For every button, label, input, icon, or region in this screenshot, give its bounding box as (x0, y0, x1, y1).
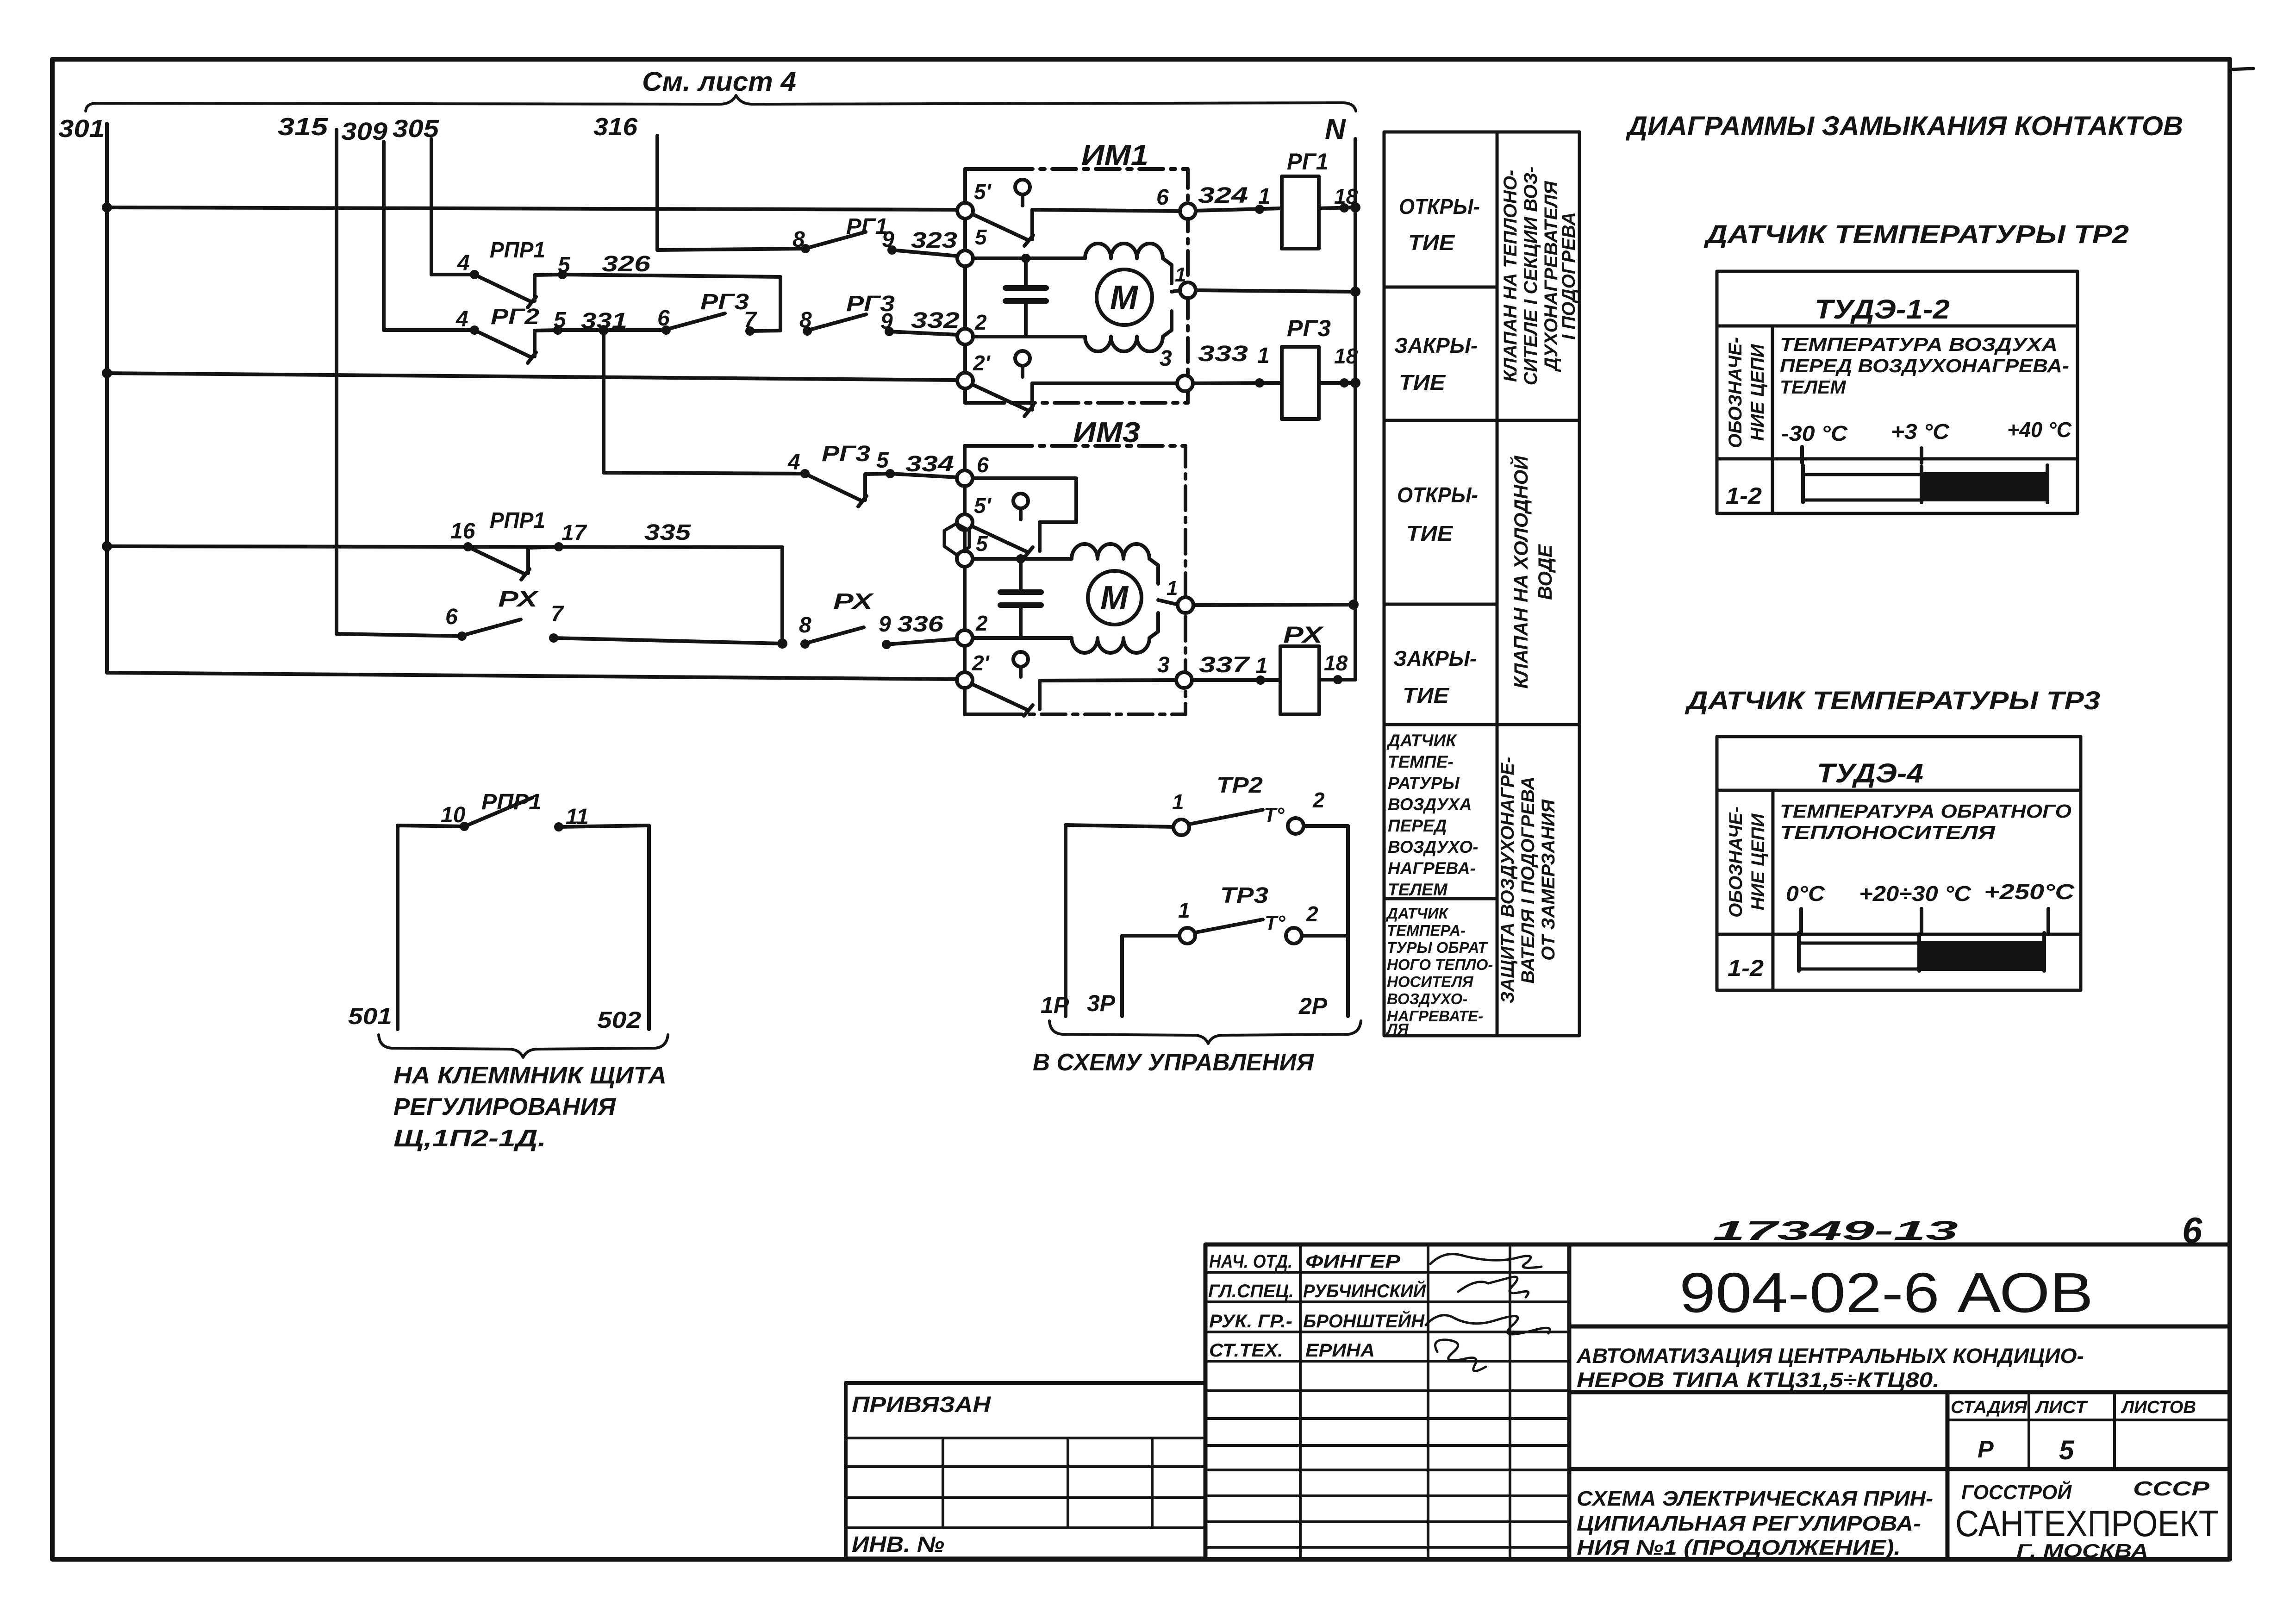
svg-text:НИЕ ЦЕПИ: НИЕ ЦЕПИ (1747, 344, 1768, 441)
svg-text:+3 °С: +3 °С (1891, 419, 1950, 444)
svg-text:333: 333 (1198, 342, 1248, 366)
svg-text:ТЕПЛОНОСИТЕЛЯ: ТЕПЛОНОСИТЕЛЯ (1780, 822, 1996, 843)
svg-text:ЗАЩИТА ВОЗДУХОНАГРЕ-: ЗАЩИТА ВОЗДУХОНАГРЕ- (1497, 757, 1518, 1004)
signature Rubchinsky (1458, 1277, 1529, 1297)
svg-text:2Р: 2Р (1298, 993, 1328, 1019)
svg-text:ВОЗДУХО-: ВОЗДУХО- (1387, 990, 1467, 1007)
mechanical link hexagon (944, 524, 969, 555)
privyazan table (846, 1383, 1205, 1558)
svg-text:ДАТЧИК: ДАТЧИК (1385, 905, 1449, 922)
wire 326 to РГ3 riser (562, 275, 780, 330)
svg-text:ГЛ.СПЕЦ.: ГЛ.СПЕЦ. (1208, 1281, 1294, 1301)
diagram bar TP2 (1803, 465, 2047, 502)
motor M circle IM1 (1097, 269, 1152, 325)
wire 5 row inside IM3 (973, 557, 1072, 561)
label 17349-13 (1713, 1216, 1958, 1246)
heading diagrams (1625, 111, 2183, 141)
label СТАДИЯ ЛИСТ ЛИСТОВ (1951, 1398, 2196, 1417)
svg-text:334: 334 (905, 452, 954, 476)
svg-text:2': 2' (972, 651, 990, 675)
terminal 6 IM3 (957, 470, 973, 486)
svg-text:18: 18 (1334, 184, 1358, 208)
label 1Р 3Р 2Р (1041, 990, 1328, 1019)
label РУК.ГР. БРОНШТЕЙН (1209, 1310, 1425, 1332)
heading sensor TP2 (1703, 219, 2129, 249)
svg-text:РГ3: РГ3 (700, 290, 749, 314)
svg-text:ТЕМПЕРАТУРА ВОЗДУХА: ТЕМПЕРАТУРА ВОЗДУХА (1780, 334, 2058, 355)
label 6 324 1 (1156, 183, 1271, 210)
thermostat TP3 contact (1122, 919, 1348, 1016)
title block signature table (1205, 1244, 1569, 1559)
svg-text:301: 301 (58, 115, 105, 143)
svg-text:16: 16 (450, 519, 475, 544)
svg-text:2: 2 (975, 611, 988, 635)
label circuit designation rotated 1 (1725, 337, 1768, 448)
wire 5 row inside IM1 (973, 256, 1085, 260)
svg-text:НА КЛЕММНИК ЩИТА: НА КЛЕММНИК ЩИТА (393, 1062, 667, 1089)
wire 316 vertical (655, 136, 659, 250)
svg-text:7: 7 (744, 308, 757, 332)
label closing 2 (1393, 646, 1477, 707)
wire 2 row inside IM1 (973, 335, 1085, 338)
svg-text:Т°: Т° (1265, 912, 1285, 934)
svg-text:РАТУРЫ: РАТУРЫ (1388, 774, 1460, 793)
actuator IM3 box (965, 446, 1185, 714)
svg-text:+20÷30 °С: +20÷30 °С (1859, 882, 1972, 906)
label 4 РГ2 5 331 (455, 305, 627, 333)
svg-text:ЗАКРЫ-: ЗАКРЫ- (1393, 646, 1477, 670)
svg-text:3: 3 (1160, 346, 1172, 371)
wire 326 row from 305 (431, 273, 474, 276)
label closing 1 (1394, 333, 1478, 394)
junction cap top IM3 (1016, 554, 1025, 563)
svg-text:332: 332 (911, 308, 960, 333)
wire 301 vertical (105, 124, 109, 673)
label to control circuit (1033, 1049, 1314, 1076)
label project title (1576, 1344, 2084, 1392)
limit switch 5p IM3 (968, 494, 1040, 558)
capacitor IM1 (1005, 258, 1046, 337)
wire 323 row from 316 (657, 249, 805, 250)
label page 6 (2182, 1210, 2202, 1250)
svg-text:1: 1 (1172, 790, 1184, 814)
svg-text:ЛИСТ: ЛИСТ (2034, 1398, 2088, 1417)
svg-text:ДАТЧИК ТЕМПЕРАТУРЫ ТР2: ДАТЧИК ТЕМПЕРАТУРЫ ТР2 (1703, 219, 2129, 249)
contact РПР1 16-17 (463, 542, 563, 580)
label see sheet 4 (642, 67, 796, 97)
svg-text:5: 5 (554, 308, 567, 332)
svg-text:7: 7 (551, 602, 564, 626)
svg-text:ОТКРЫ-: ОТКРЫ- (1397, 483, 1478, 507)
wire rail1 301 to IM1 (107, 207, 957, 210)
svg-text:БРОНШТЕЙН: БРОНШТЕЙН (1303, 1310, 1425, 1332)
scale ticks TP3 (1801, 909, 2048, 934)
svg-text:НОСИТЕЛЯ: НОСИТЕЛЯ (1387, 973, 1473, 990)
svg-text:ПРИВЯЗАН: ПРИВЯЗАН (852, 1393, 991, 1417)
svg-text:НАЧ. ОТД.: НАЧ. ОТД. (1209, 1251, 1292, 1272)
scale labels TP3 (1786, 880, 2075, 906)
wire drop to 334 row (604, 330, 805, 474)
svg-text:5: 5 (975, 225, 987, 249)
label 5 (975, 225, 987, 249)
svg-text:1: 1 (1167, 577, 1178, 600)
label РГ1 18 (1287, 149, 1358, 208)
svg-text:9: 9 (879, 612, 891, 637)
label 6 РГ3 7 (657, 290, 757, 332)
wire 305 vertical (430, 139, 433, 275)
svg-text:СТАДИЯ: СТАДИЯ (1951, 1398, 2028, 1417)
label САНТЕХПРОЕКТ (1955, 1503, 2219, 1544)
label СТ.ТЕХ. ЕРИНА (1209, 1340, 1375, 1361)
label РГ3 18 (1287, 315, 1358, 368)
svg-text:1-2: 1-2 (1728, 955, 1764, 981)
svg-text:ОТКРЫ-: ОТКРЫ- (1399, 194, 1480, 219)
svg-text:ПЕРЕД ВОЗДУХОНАГРЕВА-: ПЕРЕД ВОЗДУХОНАГРЕВА- (1780, 355, 2069, 376)
node 309 label (341, 118, 387, 145)
svg-text:3: 3 (1157, 653, 1170, 677)
svg-text:ТИЕ: ТИЕ (1399, 370, 1446, 394)
label 3 337 1 (1157, 653, 1268, 678)
table TUDE-4 (1717, 737, 2081, 990)
svg-text:ОТ ЗАМЕРЗАНИЯ: ОТ ЗАМЕРЗАНИЯ (1538, 799, 1559, 961)
relay coil РГ3 (1193, 347, 1360, 419)
signature Erina (1435, 1340, 1486, 1371)
node N label (1325, 113, 1346, 145)
svg-text:324: 324 (1198, 183, 1248, 208)
terminal 6 IM1 (1180, 203, 1196, 219)
svg-text:1: 1 (1255, 654, 1268, 678)
node 305 label (393, 115, 439, 143)
svg-text:ПЕРЕД: ПЕРЕД (1388, 816, 1447, 835)
signature Finger (1430, 1254, 1541, 1268)
svg-text:ВОЗДУХО-: ВОЗДУХО- (1388, 838, 1478, 857)
label ИНВ № (852, 1532, 944, 1557)
label opening 1 (1399, 194, 1480, 255)
svg-text:ИМ3: ИМ3 (1073, 417, 1140, 449)
svg-text:РГ3: РГ3 (1287, 315, 1331, 341)
svg-text:РГ1: РГ1 (1287, 149, 1329, 175)
junction rail2-301 (102, 368, 112, 378)
svg-text:1Р: 1Р (1041, 992, 1069, 1018)
label 904-02-6 АОВ (1679, 1261, 2093, 1324)
svg-text:309: 309 (341, 118, 387, 145)
svg-text:САНТЕХПРОЕКТ: САНТЕХПРОЕКТ (1955, 1503, 2219, 1544)
wire motor IM1 to N (1196, 290, 1355, 292)
title block main (1569, 1244, 2230, 1559)
contact РГ3 4-5 row 334 (800, 469, 957, 506)
scale labels TP2 (1781, 418, 2072, 445)
limit switch 2p IM3 (968, 652, 1176, 716)
svg-text:2: 2 (974, 310, 987, 334)
label 3 333 1 (1160, 342, 1270, 371)
svg-text:0°С: 0°С (1786, 882, 1825, 906)
label 6 РХ 7 (445, 587, 564, 629)
terminal 3 IM1 (1177, 375, 1193, 391)
svg-text:АВТОМАТИЗАЦИЯ ЦЕНТРАЛЬНЫХ КО: АВТОМАТИЗАЦИЯ ЦЕНТРАЛЬНЫХ КОНДИЦИО- (1576, 1344, 2084, 1368)
label 16 РПР1 17 335 (450, 508, 692, 545)
svg-text:М: М (1100, 580, 1129, 617)
wire 2 row inside IM3 (973, 636, 1072, 640)
svg-text:9: 9 (880, 309, 893, 334)
svg-text:5: 5 (2059, 1435, 2074, 1465)
terminal 5p IM1 (957, 203, 973, 219)
brace see sheet 4 (86, 95, 1356, 111)
svg-text:РХ: РХ (498, 587, 539, 612)
svg-text:1-2: 1-2 (1726, 483, 1762, 509)
svg-text:336: 336 (897, 612, 943, 637)
svg-text:315: 315 (278, 113, 328, 141)
svg-text:6: 6 (657, 306, 670, 331)
terminal 2 IM3 (957, 630, 973, 646)
svg-text:ИНВ. №: ИНВ. № (852, 1532, 944, 1557)
label 4 РГ3 5 334 (787, 442, 954, 476)
svg-text:ТУДЭ-4: ТУДЭ-4 (1817, 758, 1923, 788)
svg-text:I ПОДОГРЕВА: I ПОДОГРЕВА (1559, 212, 1579, 340)
svg-text:8: 8 (799, 613, 811, 638)
motor M circle IM3 (1088, 571, 1142, 625)
svg-text:НОГО ТЕПЛО-: НОГО ТЕПЛО- (1387, 956, 1493, 973)
label 1-2 TP2 (1726, 483, 1762, 509)
label 6 IM3 (977, 453, 989, 477)
svg-text:Щ,1П2-1Д.: Щ,1П2-1Д. (393, 1125, 546, 1152)
node 315 label (278, 113, 328, 141)
junction motor IM3 N (1348, 600, 1359, 610)
svg-text:М: М (1110, 279, 1139, 316)
svg-text:5: 5 (976, 531, 988, 556)
svg-text:5': 5' (974, 180, 992, 204)
svg-text:2: 2 (1312, 788, 1325, 812)
label ГЛ.СПЕЦ. РУБЧИНСКИЙ (1208, 1280, 1426, 1301)
svg-text:17349-13: 17349-13 (1713, 1216, 1958, 1246)
svg-text:ЦИПИАЛЬНАЯ РЕГУЛИРОВА-: ЦИПИАЛЬНАЯ РЕГУЛИРОВА- (1577, 1512, 1921, 1535)
function table (1384, 132, 1579, 1036)
contact РПР1 10-11 assembly (398, 798, 649, 1029)
svg-text:ТУДЭ-1-2: ТУДЭ-1-2 (1815, 294, 1950, 325)
junction rail1-301 (102, 202, 112, 213)
svg-text:6: 6 (445, 605, 458, 629)
svg-text:ДИАГРАММЫ ЗАМЫКАНИЯ КОНТАКТО: ДИАГРАММЫ ЗАМЫКАНИЯ КОНТАКТОВ (1625, 111, 2183, 141)
svg-text:ЕРИНА: ЕРИНА (1305, 1340, 1375, 1361)
svg-text:ТУРЫ ОБРАТ: ТУРЫ ОБРАТ (1387, 939, 1488, 956)
svg-text:НАГРЕВА-: НАГРЕВА- (1388, 859, 1476, 878)
relay coil РХ (1192, 646, 1342, 714)
svg-text:ВОЗДУХА: ВОЗДУХА (1388, 795, 1472, 814)
wire РГ2 row from 309 (384, 328, 474, 332)
svg-text:11: 11 (566, 805, 589, 829)
motor terminal IM3 (1158, 577, 1193, 613)
label 5p (974, 180, 992, 204)
svg-text:НИЯ №1 (ПРОДОЛЖЕНИЕ).: НИЯ №1 (ПРОДОЛЖЕНИЕ). (1577, 1536, 1901, 1559)
label TUDE-1-2 (1815, 294, 1950, 325)
wire rail3 335 row (107, 546, 782, 644)
contact РХ 6-7 (337, 619, 781, 644)
label 2p IM3 (972, 651, 990, 675)
junction 334 drop (599, 325, 609, 335)
terminal 2p IM3 (957, 672, 973, 688)
svg-text:2': 2' (973, 351, 991, 375)
svg-text:ТР2: ТР2 (1217, 773, 1263, 798)
wire motor IM3 to N (1193, 605, 1354, 605)
wire 6 hook IM3 (973, 478, 1076, 522)
svg-text:КЛАПАН НА ТЕПЛОНО-: КЛАПАН НА ТЕПЛОНО- (1500, 170, 1521, 382)
node 316 label (593, 113, 638, 141)
svg-text:ТЕМПЕРАТУРА ОБРАТНОГО: ТЕМПЕРАТУРА ОБРАТНОГО (1780, 800, 2071, 822)
label opening 2 (1397, 483, 1478, 545)
label НАЧ.ОТД. ФИНГЕР (1209, 1251, 1400, 1272)
svg-text:4: 4 (457, 251, 470, 275)
wire rail4 bottom (107, 673, 957, 679)
svg-text:904-02-6 АОВ: 904-02-6 АОВ (1679, 1261, 2093, 1324)
svg-text:СССР: СССР (2133, 1477, 2210, 1500)
svg-text:323: 323 (911, 228, 957, 253)
label 1 ТР3 T 2 (1178, 883, 1318, 934)
label ПРИВЯЗАН (852, 1393, 991, 1417)
junction rail3-301 (102, 541, 112, 551)
label 1-2 TP3 (1728, 955, 1764, 981)
label return temperature text (1780, 800, 2071, 843)
svg-text:1: 1 (1178, 898, 1190, 922)
motor terminal IM1 (1172, 263, 1196, 298)
svg-text:ДАТЧИК ТЕМПЕРАТУРЫ ТР3: ДАТЧИК ТЕМПЕРАТУРЫ ТР3 (1685, 686, 2100, 715)
junction cap top IM1 (1021, 254, 1030, 263)
svg-text:9: 9 (882, 227, 894, 252)
label valve cold water rotated (1509, 456, 1556, 689)
node 301 label (58, 115, 105, 143)
svg-text:РПР1: РПР1 (481, 790, 542, 814)
label TUDE-4 (1817, 758, 1923, 788)
svg-text:18: 18 (1324, 651, 1348, 675)
svg-text:4: 4 (455, 307, 468, 331)
limit switch 5p IM1 (969, 180, 1180, 246)
scale ticks TP2 (1802, 447, 1922, 463)
thermostat TP2 contact (1066, 810, 1348, 1016)
label sensor TP2 cell (1386, 731, 1478, 899)
junction motor N (1350, 287, 1360, 297)
contact РГ3 8-9 (803, 314, 957, 336)
contact РГ3 6-7 (661, 313, 780, 336)
svg-text:Р: Р (1978, 1436, 1994, 1463)
svg-text:337: 337 (1199, 653, 1250, 677)
brace control circuit (1049, 1021, 1361, 1044)
svg-text:18: 18 (1334, 344, 1358, 368)
svg-text:5': 5' (974, 494, 992, 518)
svg-text:ВАТЕЛЯ I ПОДОГРЕВА: ВАТЕЛЯ I ПОДОГРЕВА (1518, 776, 1538, 983)
svg-text:СХЕМА ЭЛЕКТРИЧЕСКАЯ ПРИН-: СХЕМА ЭЛЕКТРИЧЕСКАЯ ПРИН- (1577, 1487, 1933, 1510)
svg-text:335: 335 (644, 520, 692, 545)
svg-text:РЕГУЛИРОВАНИЯ: РЕГУЛИРОВАНИЯ (393, 1094, 616, 1120)
svg-text:ФИНГЕР: ФИНГЕР (1305, 1251, 1400, 1272)
actuator IM1 box (965, 169, 1188, 403)
svg-text:Т°: Т° (1264, 804, 1285, 826)
label sensor TP3 cell (1385, 905, 1493, 1038)
brace terminal block (379, 1035, 668, 1057)
svg-text:ТИЕ: ТИЕ (1403, 683, 1449, 707)
terminal 3 IM3 (1176, 672, 1192, 688)
svg-text:ТР3: ТР3 (1220, 883, 1268, 908)
relay coil РГ1 (1196, 176, 1360, 249)
label circuit designation rotated 2 (1726, 806, 1768, 918)
svg-text:ДАТЧИК: ДАТЧИК (1386, 731, 1457, 750)
label 5p IM3 (974, 494, 992, 518)
contact РГ1 8-9 (801, 232, 957, 256)
svg-text:РПР1: РПР1 (490, 508, 545, 533)
svg-text:НИЕ ЦЕПИ: НИЕ ЦЕПИ (1748, 813, 1768, 910)
table TUDE-1-2 (1717, 271, 2078, 513)
svg-text:ЛИСТОВ: ЛИСТОВ (2121, 1398, 2196, 1417)
label ИМ1 (1081, 139, 1148, 171)
wire 309 vertical (382, 142, 386, 330)
terminal 5p IM3 (957, 514, 973, 530)
svg-text:N: N (1325, 113, 1346, 145)
svg-text:1: 1 (1175, 263, 1186, 286)
label Р 5 (1978, 1435, 2074, 1465)
svg-text:РГ3: РГ3 (822, 442, 870, 466)
svg-text:3Р: 3Р (1087, 990, 1116, 1016)
label 501 502 (348, 1003, 641, 1033)
svg-text:17: 17 (562, 521, 587, 545)
svg-text:8: 8 (792, 227, 805, 252)
svg-text:+40 °С: +40 °С (2007, 418, 2072, 442)
wire N vertical (1319, 139, 1355, 680)
label ИМ3 (1073, 417, 1140, 449)
svg-text:1: 1 (1257, 344, 1270, 368)
svg-text:РХ: РХ (833, 589, 874, 614)
svg-text:См. лист 4: См. лист 4 (642, 67, 796, 97)
svg-text:502: 502 (597, 1007, 641, 1033)
label 8 РХ 9 336 (799, 589, 943, 638)
motor winding lower IM3 (1072, 613, 1158, 653)
junction 335-РХ (777, 638, 787, 649)
svg-text:5: 5 (876, 448, 889, 473)
svg-text:В СХЕМУ УПРАВЛЕНИЯ: В СХЕМУ УПРАВЛЕНИЯ (1033, 1049, 1314, 1076)
limit switch 2p IM1 (969, 351, 1177, 416)
svg-text:4: 4 (787, 450, 800, 475)
terminal 2 IM1 (957, 329, 973, 344)
label valve heater rotated (1500, 167, 1579, 386)
label air temperature text (1780, 334, 2069, 398)
svg-text:СИТЕЛЕ I СЕКЦИИ ВОЗ-: СИТЕЛЕ I СЕКЦИИ ВОЗ- (1521, 167, 1541, 386)
svg-text:6: 6 (1156, 185, 1169, 210)
motor winding lower IM1 (1085, 311, 1172, 351)
label Gosstroy СССР (1961, 1477, 2210, 1504)
svg-text:326: 326 (602, 252, 650, 276)
label 2 IM3 (975, 611, 988, 635)
label 10 РПР1 11 (441, 790, 589, 829)
label 2 (974, 310, 987, 334)
svg-text:РУБЧИНСКИЙ: РУБЧИНСКИЙ (1303, 1280, 1426, 1301)
svg-text:ТИЕ: ТИЕ (1406, 521, 1453, 545)
terminal 2p IM1 (957, 373, 973, 388)
svg-text:РХ: РХ (1283, 622, 1324, 648)
label 5 IM3 (976, 531, 988, 556)
label РХ 18 (1283, 622, 1348, 675)
label 8 РГ1 9 323 (792, 214, 957, 253)
svg-text:6: 6 (977, 453, 989, 477)
motor winding upper IM1 (1085, 244, 1172, 283)
svg-text:СТ.ТЕХ.: СТ.ТЕХ. (1209, 1340, 1283, 1361)
svg-text:501: 501 (348, 1003, 392, 1029)
contact РПР1 4-5 (470, 270, 567, 307)
contact РГ2 4-5 (470, 325, 666, 363)
svg-text:ОБОЗНАЧЕ-: ОБОЗНАЧЕ- (1725, 337, 1746, 448)
wire rail2 301 to IM1 (107, 373, 957, 380)
svg-text:+250°С: +250°С (1984, 880, 2075, 904)
label 1 ТР2 T 2 (1172, 773, 1325, 826)
svg-text:2: 2 (1306, 902, 1318, 926)
svg-text:10: 10 (441, 803, 466, 827)
svg-text:РУК. ГР.-: РУК. ГР.- (1209, 1311, 1292, 1332)
svg-text:ИМ1: ИМ1 (1081, 139, 1148, 171)
